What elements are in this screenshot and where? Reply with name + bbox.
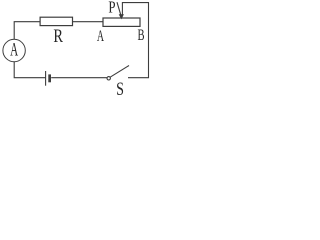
potentiometer label P — [108, 0, 115, 17]
wire battery to switch pivot — [51, 77, 107, 79]
svg-text:S: S — [116, 78, 124, 99]
svg-text:B: B — [137, 26, 144, 44]
potentiometer terminal label B — [137, 26, 144, 44]
resistor label R — [53, 25, 63, 46]
switch S blade — [110, 66, 129, 78]
battery long thin plate — [45, 71, 47, 86]
svg-text:A: A — [97, 27, 104, 45]
ammeter label A — [10, 40, 18, 61]
wire top-left (ammeter top to resistor) — [14, 22, 40, 40]
potentiometer wiper arrowhead — [119, 14, 124, 19]
potentiometer P body — [103, 18, 140, 26]
svg-text:R: R — [53, 25, 63, 46]
wire wiper to top-right corner and down right side — [122, 3, 148, 78]
svg-text:A: A — [10, 40, 18, 61]
potentiometer terminal label A — [97, 27, 104, 45]
wire resistor to potentiometer — [73, 21, 104, 23]
svg-text:P: P — [108, 0, 115, 17]
switch S pivot — [107, 77, 110, 80]
switch label S — [116, 78, 124, 99]
potentiometer wiper arrow diagonal shaft — [117, 2, 121, 15]
battery short thick plate — [48, 74, 51, 82]
wire bottom-left (battery to ammeter bottom) — [14, 62, 45, 78]
resistor R body — [40, 17, 72, 25]
ammeter circle — [3, 39, 25, 61]
